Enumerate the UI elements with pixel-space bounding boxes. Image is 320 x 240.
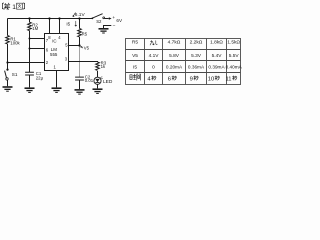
svg-text:10: 10 [208,76,214,82]
svg-text:5.4V: 5.4V [212,53,223,59]
svg-text:1M: 1M [32,26,38,31]
svg-text:9: 9 [190,76,193,82]
svg-text:1.8kΩ: 1.8kΩ [210,40,223,46]
svg-text:6V: 6V [116,18,123,23]
svg-text:1: 1 [12,4,16,11]
svg-text:0.39mA: 0.39mA [208,64,225,69]
svg-text:S1: S1 [12,72,18,77]
svg-text:6.1V: 6.1V [75,12,86,18]
svg-text:0.40mA: 0.40mA [226,64,243,69]
svg-text:I5: I5 [133,64,137,70]
svg-text:22µ: 22µ [36,75,44,80]
svg-text:4: 4 [58,35,61,40]
svg-text:2.2kΩ: 2.2kΩ [190,40,203,46]
svg-text:4.1V: 4.1V [149,53,160,59]
svg-text:1: 1 [54,64,57,69]
svg-text:V5: V5 [84,46,90,51]
svg-text:4: 4 [147,76,151,82]
svg-text:5.8V: 5.8V [169,53,180,59]
svg-text:S2: S2 [96,19,102,24]
svg-text:5: 5 [65,43,68,48]
svg-text:2: 2 [46,60,49,65]
svg-text:5.3V: 5.3V [191,53,202,59]
svg-text:100k: 100k [10,40,20,45]
svg-text:11: 11 [225,76,231,82]
svg-text:4.7kΩ: 4.7kΩ [168,40,181,46]
svg-text:0.01: 0.01 [85,78,94,83]
svg-text:−: − [113,24,116,29]
svg-text:1.5kΩ: 1.5kΩ [227,40,240,46]
svg-text:R5: R5 [132,40,138,46]
svg-text:5.5V: 5.5V [229,53,240,59]
svg-text:0.20mA: 0.20mA [166,64,183,69]
svg-text:IC: IC [52,39,56,44]
svg-text:555: 555 [50,52,58,57]
svg-text:+: + [112,15,115,20]
svg-text:R5: R5 [82,32,88,37]
svg-text:6: 6 [168,76,171,82]
svg-text:LED: LED [103,79,113,85]
svg-text:3: 3 [65,57,68,62]
svg-text:8: 8 [48,35,51,40]
svg-text:V5: V5 [132,53,138,59]
svg-text:0.36mA: 0.36mA [188,64,205,69]
svg-text:0: 0 [152,64,155,70]
svg-text:I5: I5 [66,22,70,27]
svg-text:6: 6 [46,48,49,53]
